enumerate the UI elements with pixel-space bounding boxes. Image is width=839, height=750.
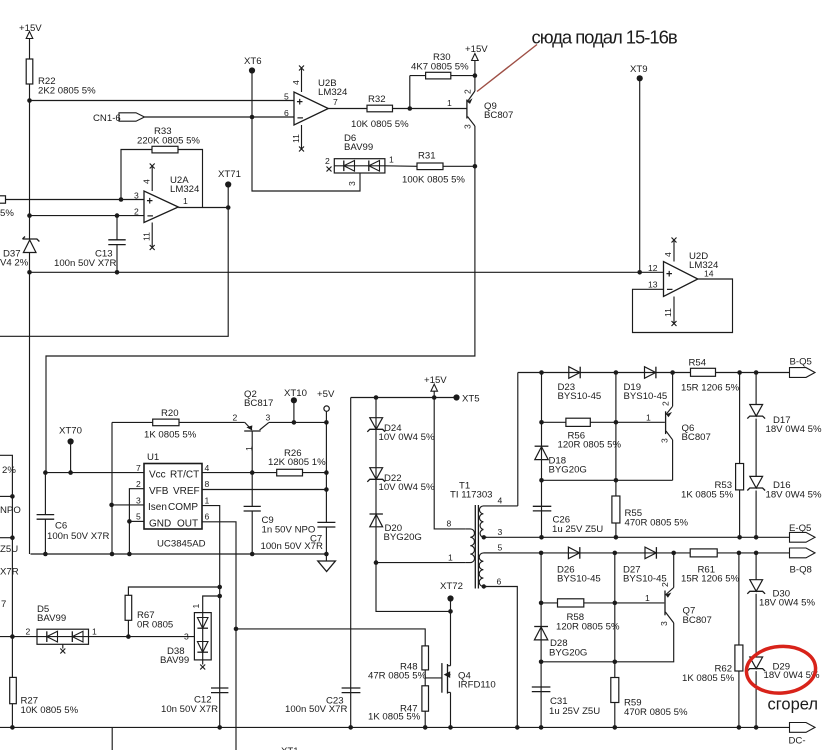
node T1 pin6 on DC rail (515, 725, 520, 730)
transistor Q6 BC807 (616, 401, 711, 443)
diode D27 BYS10-45 (623, 547, 667, 584)
resistor R27 (10, 677, 79, 727)
svg-text:1: 1 (645, 593, 650, 603)
op-amp U2B (284, 78, 348, 125)
resistor R55 (612, 496, 689, 529)
svg-text:5: 5 (498, 543, 503, 553)
testpoint XT6 (244, 56, 262, 74)
svg-text:11: 11 (291, 134, 301, 143)
node D16 on E rail (754, 535, 759, 540)
wire U2B output to R32 (328, 108, 367, 110)
node Q4 source on DC rail (448, 725, 453, 730)
svg-text:3: 3 (347, 181, 357, 186)
svg-text:100K 0805 5%: 100K 0805 5% (402, 175, 465, 186)
resistor R61 (681, 549, 740, 585)
U2B pin 11 stub with x (291, 125, 304, 152)
wire Q7 collector up (673, 553, 675, 588)
zener D22 (367, 468, 435, 493)
wire R22 to node (29, 84, 31, 101)
power symbol +5V (317, 389, 335, 422)
svg-text:+15V: +15V (19, 23, 42, 34)
node GND junction (127, 519, 132, 524)
tag B-Q5 (790, 357, 816, 378)
svg-text:2: 2 (233, 413, 238, 423)
node R53 on E rail (737, 535, 742, 540)
wire long to U2D pin12 (30, 271, 664, 273)
zener D17 (747, 373, 822, 477)
diode D19 BYS10-45 (624, 367, 668, 402)
svg-text:4: 4 (291, 80, 301, 85)
wire Q9 collector down (474, 126, 476, 166)
tag B-Q8 (790, 548, 816, 576)
wire XT71 down and left to edge (0, 185, 228, 337)
node C9/RTCT (250, 470, 255, 475)
svg-text:V4 2%: V4 2% (0, 258, 29, 269)
wire R20 left bus down to rail (111, 422, 113, 554)
wire XT9 down (639, 78, 641, 272)
svg-text:2: 2 (325, 156, 330, 166)
svg-text:BAV99: BAV99 (37, 613, 66, 624)
svg-text:8: 8 (205, 479, 210, 489)
node R62 branch (737, 551, 742, 556)
node T1 pin1 junction (374, 560, 379, 565)
op-amp U2A (134, 175, 200, 223)
testpoint XT72 (440, 581, 463, 611)
svg-text:сюда подал 15-16в: сюда подал 15-16в (532, 27, 678, 48)
wire +15V down to T1 pin8 (434, 398, 466, 529)
mosfet Q4 IRFD110 (442, 663, 496, 694)
wire D28/C31 branch (540, 553, 542, 728)
node +15V stem (432, 395, 437, 400)
node left bus / U2D wire (27, 270, 32, 275)
op-amp U2D (648, 251, 719, 297)
svg-text:1: 1 (205, 495, 210, 505)
svg-text:0R 0805: 0R 0805 (137, 620, 173, 631)
node output line x R55 (614, 478, 619, 483)
tag DC- (789, 723, 816, 747)
svg-text:6: 6 (284, 108, 289, 118)
svg-text:1: 1 (646, 413, 651, 423)
dual diode D6 BAV99 (325, 133, 394, 173)
U2A pin3 input wire (0, 199, 144, 201)
svg-text:3: 3 (184, 632, 189, 642)
svg-text:1: 1 (92, 627, 97, 637)
wire output sense line (542, 479, 673, 481)
wire Q7 emitter down/left (541, 623, 674, 662)
wire D37 to pin12 bus (29, 253, 31, 273)
node C13 top on pin2 wire (115, 213, 120, 218)
resistor stub at left edge (cut) (0, 196, 14, 219)
resistor R30 (410, 52, 475, 79)
svg-text:1: 1 (447, 98, 452, 108)
svg-text:100n 50V X7R: 100n 50V X7R (285, 704, 347, 715)
testpoint XT5 (453, 394, 479, 405)
node R55 on E rail (614, 535, 619, 540)
svg-text:2: 2 (134, 206, 139, 216)
zener D16 (747, 476, 822, 537)
svg-text:R32: R32 (368, 94, 386, 105)
svg-text:47R 0805 5%: 47R 0805 5% (368, 671, 427, 682)
diode D26 BYS10-45 (557, 547, 601, 584)
svg-text:11: 11 (142, 232, 152, 241)
resistor R31 (402, 151, 465, 186)
node D18 anode / output (539, 478, 544, 483)
annotation red arrow line (477, 45, 537, 92)
svg-text:3: 3 (134, 190, 139, 200)
resistor R62 (682, 553, 743, 728)
svg-text:1u 25V Z5U: 1u 25V Z5U (549, 706, 600, 717)
wire left branch down to C23 (350, 398, 352, 728)
svg-text:2: 2 (660, 401, 670, 406)
svg-text:1K 0805 5%: 1K 0805 5% (144, 430, 197, 441)
node Isen/R20 bus (109, 503, 114, 508)
wire gate drive from OUT (236, 629, 425, 646)
resistor R59 (611, 678, 688, 728)
wire Q2 emitter / C9 bus (251, 431, 253, 506)
svg-text:COMP: COMP (168, 502, 198, 513)
svg-text:2%: 2% (2, 465, 16, 476)
node D29 on DC rail (754, 725, 759, 730)
svg-text:8: 8 (447, 519, 452, 529)
svg-text:C6: C6 (55, 521, 67, 532)
zener D37 (0, 237, 39, 269)
svg-text:+15V: +15V (465, 44, 488, 55)
svg-text:DC-: DC- (789, 736, 806, 747)
svg-text:1n 50V NPO: 1n 50V NPO (262, 524, 316, 535)
U2A pin 11 stub with x (142, 223, 155, 251)
svg-text:Vcc: Vcc (149, 470, 166, 481)
resistor R56 (542, 418, 622, 450)
svg-text:12: 12 (648, 263, 658, 273)
svg-text:11: 11 (663, 308, 673, 317)
wire R33 right to output (178, 150, 203, 208)
svg-text:BC817: BC817 (244, 398, 273, 409)
transistor Q7 BC807 (615, 582, 712, 626)
wire XT6 down to D6 pin3 (252, 71, 360, 192)
resistor R33 feedback (137, 126, 200, 153)
ground rail (analog gnd) (31, 553, 327, 555)
svg-text:10V 0W4 5%: 10V 0W4 5% (379, 482, 435, 493)
node R33 feedback on pin3 (119, 197, 124, 202)
ground symbol (318, 561, 336, 572)
svg-text:3: 3 (498, 527, 503, 537)
node Q6 collector (670, 370, 675, 375)
resistor R32 (351, 94, 409, 130)
svg-text:5: 5 (136, 512, 141, 522)
svg-text:2: 2 (26, 627, 31, 637)
diode D28 BYG20G (534, 627, 587, 659)
svg-text:2: 2 (463, 89, 473, 94)
node XT9 / U2D pin12 (637, 270, 642, 275)
node D30 branch (754, 551, 759, 556)
svg-text:1u 25V Z5U: 1u 25V Z5U (552, 524, 603, 535)
svg-text:6: 6 (497, 577, 502, 587)
svg-text:BYG20G: BYG20G (549, 465, 587, 476)
svg-text:XT71: XT71 (218, 169, 241, 180)
svg-text:1: 1 (389, 155, 394, 165)
U2B pin 4 stub with x (291, 66, 304, 93)
node R20 bus on rail (110, 552, 115, 557)
wire R31 to collector node (443, 165, 475, 167)
capacitor C23 (285, 688, 360, 715)
svg-text:3: 3 (660, 438, 670, 443)
wire +15V node to XT5 (351, 397, 457, 399)
svg-text:GND: GND (149, 518, 171, 529)
svg-text:120R 0805 5%: 120R 0805 5% (558, 440, 622, 451)
node R67 bottom (126, 634, 131, 639)
svg-text:−: − (147, 211, 153, 223)
svg-text:BC807: BC807 (682, 432, 711, 443)
svg-text:BYS10-45: BYS10-45 (557, 574, 601, 585)
node C6 on rail (43, 552, 48, 557)
svg-text:+: + (297, 97, 303, 109)
svg-text:1K 0805 5%: 1K 0805 5% (682, 673, 735, 684)
node R56 left (539, 420, 544, 425)
wire Q4 drain up (450, 611, 452, 665)
svg-text:220K 0805 5%: 220K 0805 5% (137, 136, 200, 147)
svg-text:470R 0805 5%: 470R 0805 5% (624, 707, 688, 718)
svg-text:1: 1 (191, 604, 201, 609)
node XT70 stem (68, 470, 73, 475)
node R30/+15V stem (473, 73, 478, 78)
capacitor C13 (54, 216, 126, 273)
wire drain line to T1 pin1 branch (376, 398, 451, 612)
transformer T1 (447, 481, 518, 589)
wire R55 branch (615, 373, 617, 538)
svg-text:+: + (666, 269, 672, 281)
svg-text:R54: R54 (689, 358, 707, 369)
svg-text:1: 1 (448, 553, 453, 563)
wire left vertical bus x=29.5 (29, 101, 31, 240)
svg-text:4: 4 (663, 252, 673, 257)
resistor R26 (252, 448, 326, 476)
svg-text:4: 4 (142, 179, 152, 184)
svg-text:1: 1 (183, 196, 188, 206)
wire stub below rail left (111, 727, 113, 750)
svg-text:4K7 0805 5%: 4K7 0805 5% (411, 62, 469, 73)
wire R33 loop (121, 150, 152, 200)
svg-text:−: − (667, 284, 673, 296)
svg-text:3: 3 (659, 621, 669, 626)
node Q7 emitter line x R59 (613, 660, 618, 665)
node D18 branch (539, 370, 544, 375)
wire T1 pin1 to D20 node (376, 562, 466, 564)
wire left vertical bus lower (29, 272, 31, 554)
diode D20 (370, 514, 422, 543)
svg-text:12K 0805 1%: 12K 0805 1% (268, 457, 326, 468)
svg-text:14: 14 (704, 269, 714, 279)
svg-text:15R 1206 5%: 15R 1206 5% (681, 383, 740, 394)
wire Q6 collector up (672, 373, 674, 407)
U2A pin2 input wire (30, 215, 145, 217)
wire gate node to Q4 gate (425, 677, 441, 679)
power symbol +15V (center) (424, 375, 447, 398)
resistor R22 (26, 59, 96, 96)
svg-text:RT/CT: RT/CT (170, 470, 199, 481)
svg-text:TI 117303: TI 117303 (450, 490, 493, 501)
resistor R20 (112, 408, 197, 441)
svg-text:B-Q8: B-Q8 (790, 565, 812, 576)
node COMP/R67 (217, 585, 222, 590)
svg-text:−: − (297, 113, 303, 125)
svg-text:6: 6 (205, 512, 210, 522)
node COMP/D38 (217, 594, 222, 599)
svg-text:XT5: XT5 (462, 394, 480, 405)
wire D5 pin2 to left edge (0, 636, 37, 638)
testpoint XT71 (218, 169, 241, 188)
svg-text:2: 2 (136, 479, 141, 489)
svg-text:IRFD110: IRFD110 (458, 680, 496, 691)
svg-text:2K2 0805 5%: 2K2 0805 5% (38, 85, 96, 96)
svg-text:18V 0W4 5%: 18V 0W4 5% (766, 424, 822, 435)
wire D18/C26 branch (541, 373, 543, 538)
svg-text:XT70: XT70 (59, 426, 82, 437)
svg-text:U1: U1 (147, 452, 159, 463)
wire Q4 source down (450, 692, 452, 727)
capacitor C31 (532, 687, 600, 717)
wire U1 COMP pin1 (202, 506, 220, 727)
node D17 branch (754, 370, 759, 375)
capacitor C7 (261, 522, 336, 561)
svg-text:Isen: Isen (148, 502, 167, 513)
DC- bottom rail (0, 726, 790, 728)
wire Q2 collector to +5V (269, 421, 327, 423)
svg-text:BAV99: BAV99 (160, 655, 189, 666)
resistor R48 (368, 646, 429, 682)
wire +5V bus down (325, 422, 327, 522)
node Vcc/C6 (43, 470, 48, 475)
svg-text:100n 50V X7R: 100n 50V X7R (261, 541, 323, 552)
wire U1 Isen pin3 (112, 504, 144, 506)
node VFB bus to rail (127, 552, 132, 557)
node D28 anode / Q7 emitter line (539, 660, 544, 665)
svg-text:R20: R20 (161, 408, 179, 419)
zener D24 (367, 418, 435, 443)
node XT10 stem (292, 420, 297, 425)
node C31 on DC rail (539, 725, 544, 730)
node R59 branch (613, 551, 618, 556)
node R56 right / Q6 base (614, 420, 619, 425)
wire CN1-6 to U2B pin6 (145, 116, 295, 118)
U2D pin 11 stub with x (663, 297, 676, 327)
diode D18 BYG20G (535, 446, 587, 475)
testpoint XT70 (59, 426, 82, 473)
node D28 branch (539, 551, 544, 556)
wire T1 pin4 up to rectifier rail (517, 373, 519, 506)
svg-text:VREF: VREF (173, 486, 200, 497)
resistor R54 (681, 358, 740, 394)
svg-text:7: 7 (1, 599, 6, 610)
svg-text:CN1-6: CN1-6 (93, 113, 121, 124)
svg-text:сгорел: сгорел (768, 696, 819, 714)
node R31/collector (473, 164, 478, 169)
power symbol +15V (top left) (19, 23, 42, 59)
svg-text:10K 0805 5%: 10K 0805 5% (21, 705, 79, 716)
dual diode D38 BAV99 (vertical) (160, 596, 220, 670)
svg-text:3: 3 (266, 413, 271, 423)
node +5V collector (324, 420, 329, 425)
node R26 right (324, 470, 329, 475)
svg-text:B-Q5: B-Q5 (790, 357, 812, 368)
node R53 branch (737, 370, 742, 375)
svg-text:3: 3 (136, 495, 141, 505)
node rail end / C7 (324, 552, 329, 557)
node C23 on DC rail (348, 725, 353, 730)
resistor R53 (681, 373, 744, 538)
node output/XT71 (226, 205, 231, 210)
wire base node to Q9 (410, 108, 467, 110)
wire U1 GND pin5 (129, 520, 144, 522)
svg-text:XT6: XT6 (244, 56, 262, 67)
svg-text:4: 4 (205, 463, 210, 473)
node Q4 drain / XT72 (448, 609, 453, 614)
node R22/pin5 junction (27, 98, 32, 103)
svg-text:13: 13 (648, 280, 658, 290)
svg-text:LM324: LM324 (170, 184, 200, 195)
svg-text:XT10: XT10 (284, 388, 307, 399)
output rail 1 (B-Q5) (518, 372, 790, 374)
dual diode D5 BAV99 (26, 604, 98, 654)
U2D pin 4 stub with x (663, 238, 676, 262)
svg-text:1K 0805 5%: 1K 0805 5% (368, 712, 421, 723)
svg-text:470R 0805 5%: 470R 0805 5% (625, 518, 689, 529)
node R27 on DC rail (10, 725, 15, 730)
IC U1 UC3845AD box (136, 452, 210, 550)
zener D30 (747, 553, 815, 657)
tag E-Q5 (789, 523, 815, 542)
wire R48 to gate node (424, 670, 426, 678)
transistor Q2 BC817 (233, 389, 274, 451)
wire U1 RT/CT pin4 (202, 472, 252, 474)
node R58 left (539, 601, 544, 606)
resistor R47 (368, 678, 429, 728)
svg-text:5%: 5% (0, 208, 14, 219)
svg-text:10K 0805 5%: 10K 0805 5% (351, 119, 409, 130)
wire U1 VFB pin2 (129, 489, 144, 554)
wire supply from Q9 collector to U1 Vcc (46, 166, 475, 472)
svg-text:XT72: XT72 (440, 581, 463, 592)
node C9 on rail (250, 552, 255, 557)
testpoint XT10 (284, 388, 307, 422)
diode D23 BYS10-45 (558, 367, 602, 402)
U2A pin 4 stub with x (142, 164, 155, 192)
wire U1 VREF pin8 (202, 489, 326, 491)
output rail 2 (B-Q8) (484, 552, 790, 554)
capacitor C26 (533, 506, 603, 535)
node R55 branch (614, 370, 619, 375)
transistor Q9 BC807 (447, 89, 513, 129)
wire D5 pin1 to D38 pin3 (89, 636, 195, 638)
power symbol +15V (at Q9) (465, 44, 488, 91)
svg-text:1K 0805 5%: 1K 0805 5% (681, 490, 734, 501)
svg-text:+5V: +5V (317, 389, 335, 400)
wire U1 OUT pin6 (202, 522, 236, 750)
svg-text:OUT: OUT (177, 518, 198, 529)
svg-text:7: 7 (333, 97, 338, 107)
svg-text:18V 0W4 5%: 18V 0W4 5% (766, 490, 822, 501)
capacitor C12 (161, 688, 228, 715)
svg-text:X7R: X7R (0, 567, 19, 578)
node XT6 stem on pin6 wire (250, 115, 255, 120)
wire R32 to base node (393, 108, 410, 110)
svg-text:100n 50V X7R: 100n 50V X7R (54, 258, 116, 269)
resistor R58 (541, 599, 620, 633)
node VREF junction (324, 487, 329, 492)
svg-text:BYG20G: BYG20G (549, 648, 587, 659)
svg-text:10V 0W4 5%: 10V 0W4 5% (379, 432, 435, 443)
capacitor C6 (37, 473, 110, 554)
output rail E (T1 pin3) (484, 536, 790, 538)
